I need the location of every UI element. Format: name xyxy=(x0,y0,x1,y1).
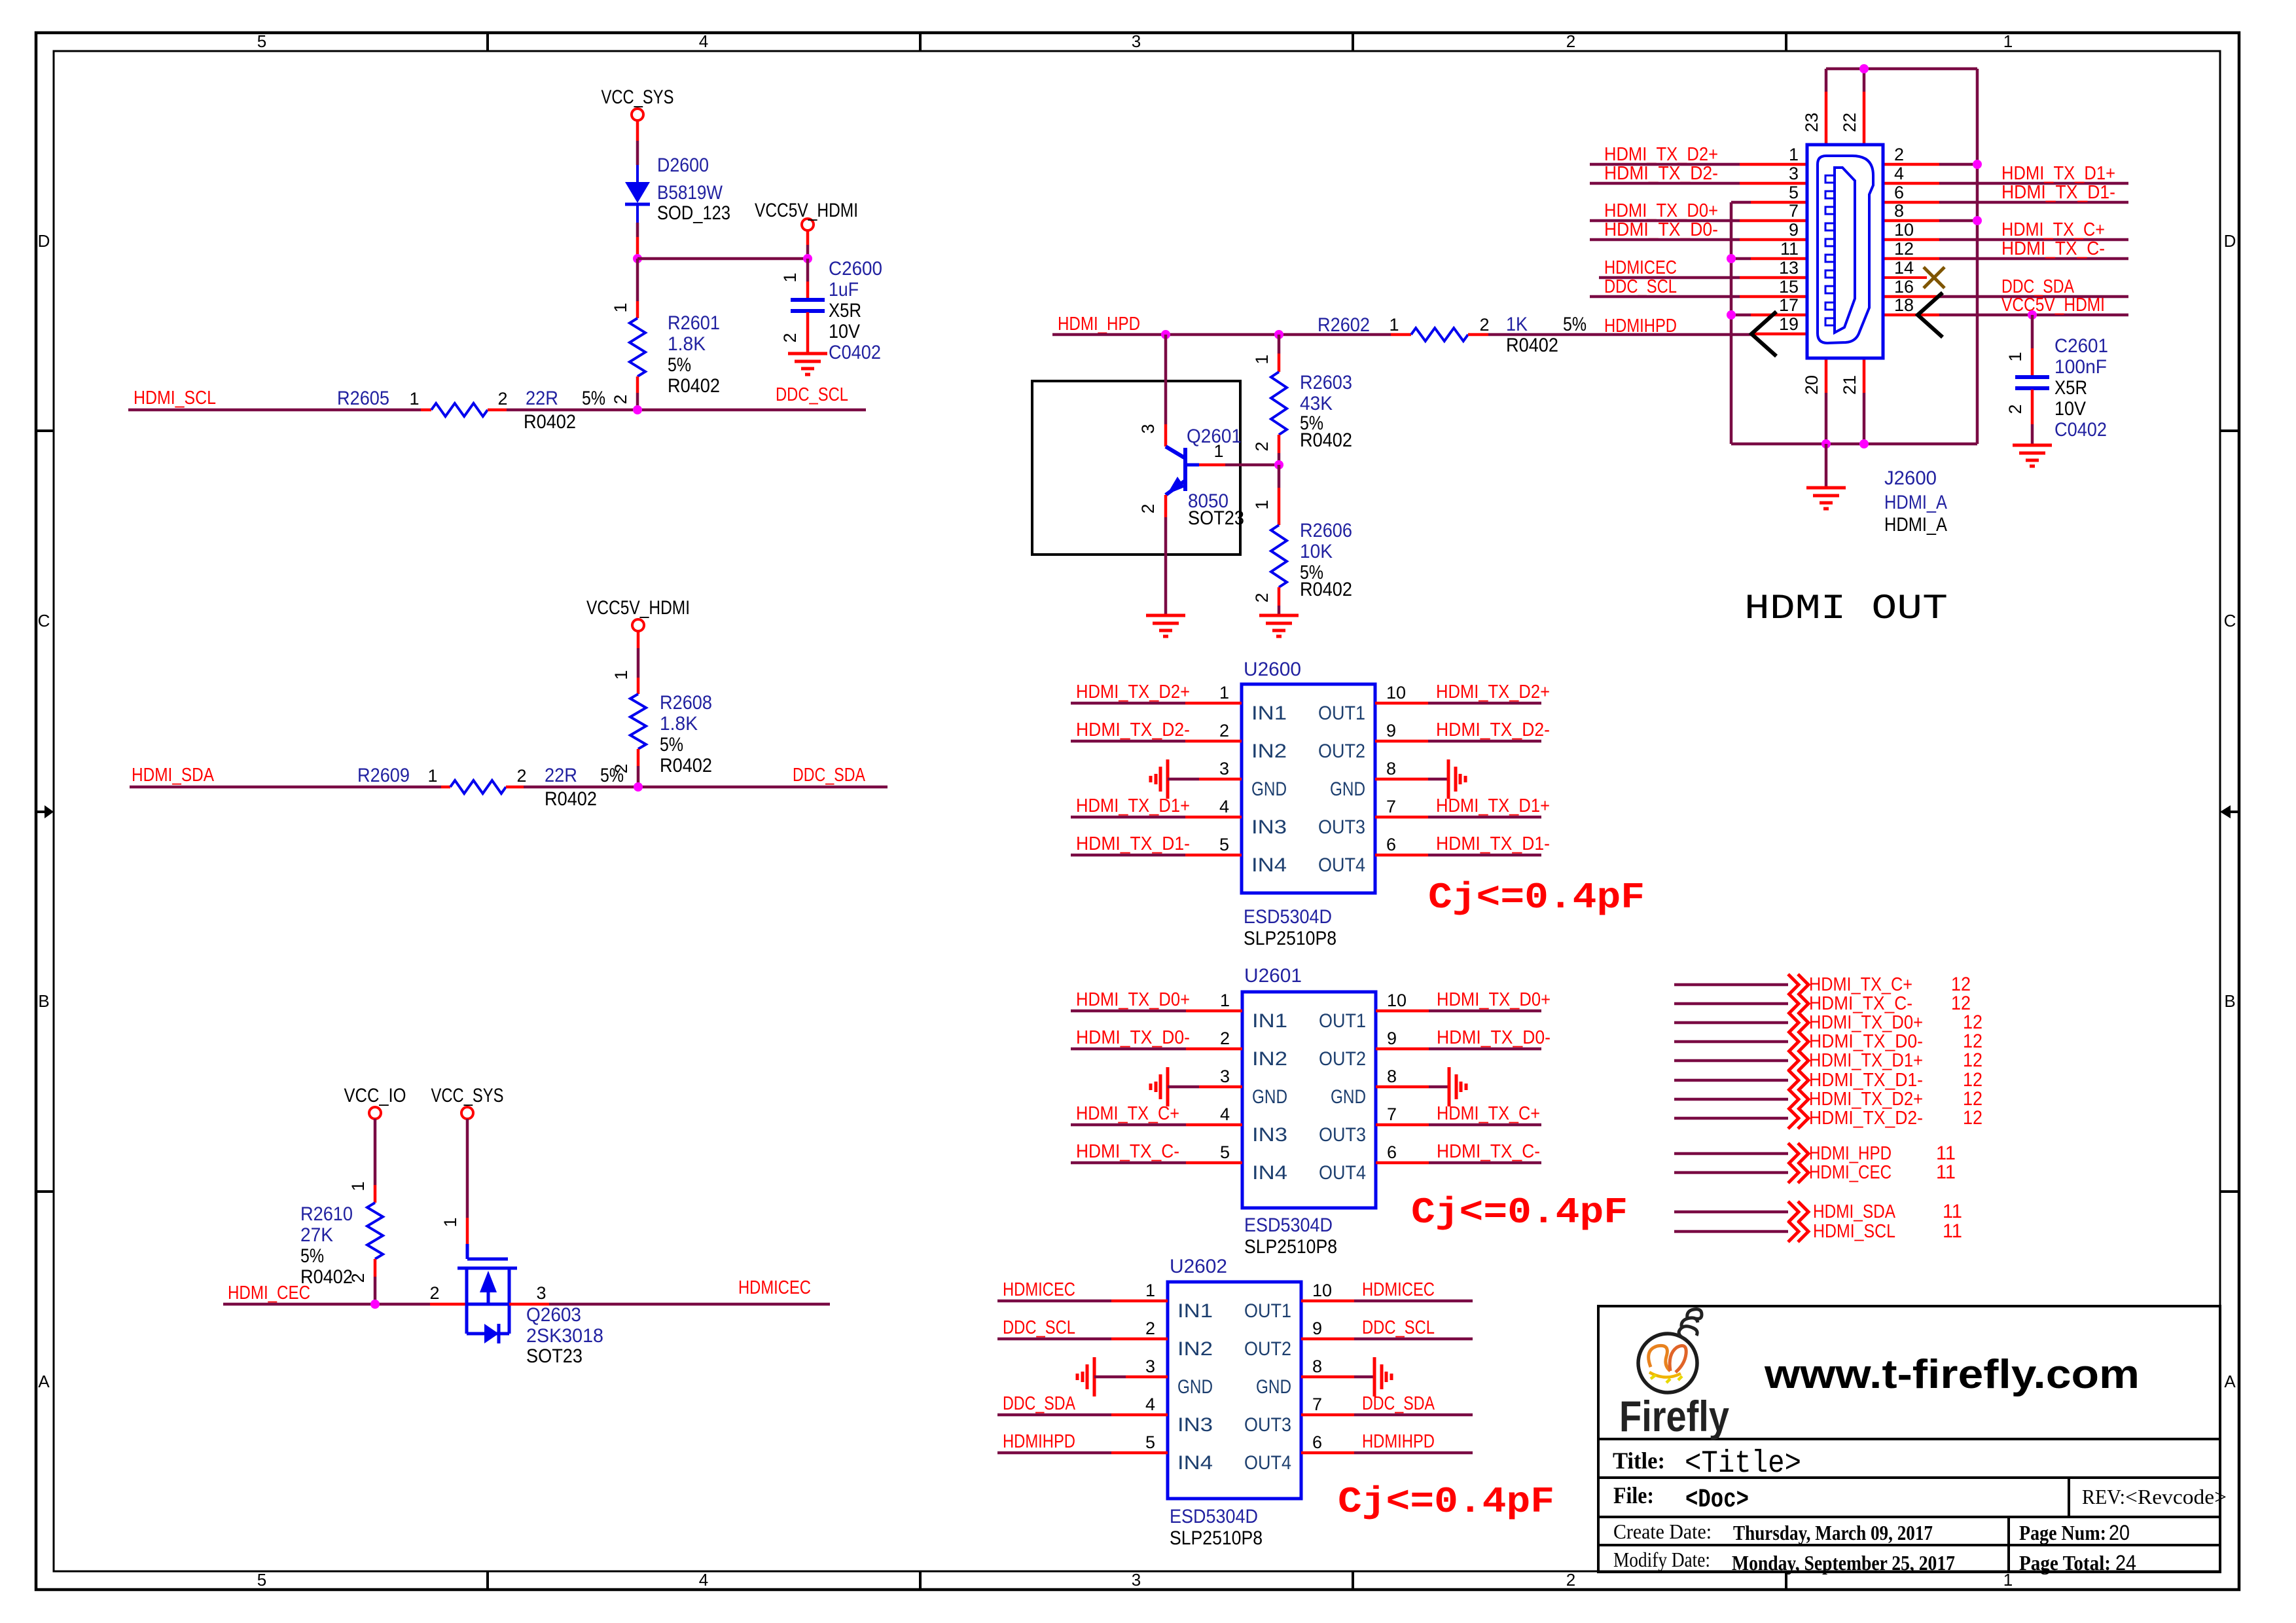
svg-text:VCC_SYS: VCC_SYS xyxy=(601,86,674,108)
svg-text:R2609: R2609 xyxy=(357,765,410,786)
svg-text:C2601: C2601 xyxy=(2054,335,2108,357)
wire to J2600 pin 1 xyxy=(1590,163,1740,166)
svg-text:VCC5V_HDMI: VCC5V_HDMI xyxy=(755,200,858,221)
off-page connector HDMI_TX_D0- (page 12) xyxy=(1674,1030,1982,1052)
svg-text:5%: 5% xyxy=(660,734,683,756)
svg-text:HDMI_TX_D2+: HDMI_TX_D2+ xyxy=(1436,682,1550,702)
svg-text:1.8K: 1.8K xyxy=(668,333,706,355)
wire VCC_SYS to diode D2600 xyxy=(636,120,639,141)
svg-text:2: 2 xyxy=(1145,1319,1155,1338)
svg-text:OUT2: OUT2 xyxy=(1319,1048,1366,1070)
wire to J2600 pin 3 xyxy=(1590,182,1740,185)
svg-text:OUT4: OUT4 xyxy=(1318,854,1365,876)
junction at (2790,678) xyxy=(1821,439,1831,448)
no-ERC chevron on pin 19 xyxy=(1751,312,1776,356)
svg-text:D: D xyxy=(2224,231,2236,251)
svg-text:IN3: IN3 xyxy=(1252,1124,1287,1146)
svg-text:VCC5V_HDMI: VCC5V_HDMI xyxy=(586,597,690,619)
svg-text:HDMI_TX_D1+: HDMI_TX_D1+ xyxy=(1436,795,1550,816)
wire to J2600 pin 11 xyxy=(1731,257,1751,261)
svg-text:OUT4: OUT4 xyxy=(1319,1162,1366,1184)
svg-text:HDMI OUT: HDMI OUT xyxy=(1744,589,1948,629)
svg-text:HDMI_TX_D1+: HDMI_TX_D1+ xyxy=(1076,795,1190,816)
svg-text:SOT23: SOT23 xyxy=(526,1345,583,1367)
wire to J2600 pin 9 xyxy=(1590,238,1740,242)
svg-text:DDC_SDA: DDC_SDA xyxy=(793,765,866,786)
wire HDMI_SCL xyxy=(128,409,421,412)
wire U2600 pin 6 xyxy=(1375,854,1428,857)
svg-text:HDMI_TX_D0-: HDMI_TX_D0- xyxy=(1604,219,1718,240)
svg-text:<Doc>: <Doc> xyxy=(1685,1486,1749,1515)
svg-text:HDMI_TX_C+: HDMI_TX_C+ xyxy=(2001,219,2105,240)
svg-text:2: 2 xyxy=(1566,31,1575,51)
ground (power symbol) at U2600 pin 3 xyxy=(1151,759,1168,799)
wire U2602 pin 5 xyxy=(997,1451,1111,1455)
svg-text:HDMI_TX_D2-: HDMI_TX_D2- xyxy=(1076,720,1190,740)
wire U2600 pin 8 xyxy=(1375,778,1428,781)
svg-text:10V: 10V xyxy=(2054,398,2086,420)
svg-text:3: 3 xyxy=(1219,759,1229,778)
capacitor C2600 1uF xyxy=(780,258,882,363)
svg-text:X5R: X5R xyxy=(829,300,861,321)
wire U2600 pin 3 xyxy=(1168,778,1199,781)
svg-text:14: 14 xyxy=(1894,258,1914,278)
svg-text:HDMI_A: HDMI_A xyxy=(1884,514,1947,536)
wire U2600 pin 4 xyxy=(1071,816,1185,819)
svg-text:1: 1 xyxy=(1789,145,1799,164)
svg-text:HDMI_TX_D2+: HDMI_TX_D2+ xyxy=(1604,144,1718,165)
svg-text:HDMI_TX_C+: HDMI_TX_C+ xyxy=(1076,1103,1179,1124)
svg-text:IN2: IN2 xyxy=(1252,1048,1287,1070)
transistor Q2601 8050 SOT23 xyxy=(1138,335,1279,615)
svg-text:2: 2 xyxy=(1566,1570,1575,1590)
svg-text:6: 6 xyxy=(1387,1142,1397,1162)
junction at (1781,511) xyxy=(1161,330,1170,339)
svg-text:21: 21 xyxy=(1840,375,1859,395)
svg-text:23: 23 xyxy=(1802,113,1821,132)
svg-text:1: 1 xyxy=(348,1181,368,1191)
svg-text:OUT1: OUT1 xyxy=(1318,702,1365,724)
wire left shield vertical (pins 5,11,17) xyxy=(1730,202,1733,444)
wire pin 22 xyxy=(1863,69,1866,92)
svg-text:OUT2: OUT2 xyxy=(1244,1338,1291,1360)
svg-text:Monday, September 25, 2017: Monday, September 25, 2017 xyxy=(1732,1551,1955,1575)
svg-text:1: 1 xyxy=(1252,500,1272,509)
wire VCC5V_HDMI to node xyxy=(806,230,810,245)
junction at (2645,395) xyxy=(1727,254,1736,263)
svg-text:SOD_123: SOD_123 xyxy=(657,202,730,224)
wire pin 14 (no connect) xyxy=(1883,276,1927,279)
svg-text:10: 10 xyxy=(1312,1281,1332,1300)
svg-text:HDMI_SCL: HDMI_SCL xyxy=(1813,1221,1895,1242)
wire U2601 pin 2 xyxy=(1071,1048,1186,1051)
connector J2600 HDMI_A body xyxy=(1807,145,1947,536)
svg-text:11: 11 xyxy=(1936,1161,1956,1183)
svg-text:DDC_SDA: DDC_SDA xyxy=(1003,1393,1076,1414)
wire U2601 pin 8 xyxy=(1376,1085,1429,1089)
wire U2600 pin 2 xyxy=(1071,740,1185,743)
wire node to C2600 branch xyxy=(637,257,808,261)
svg-text:4: 4 xyxy=(699,1570,708,1590)
junction at (1234,395) xyxy=(803,254,812,263)
resistor R2601 1.8K xyxy=(611,259,720,410)
svg-text:1: 1 xyxy=(2003,31,2013,51)
off-page connector HDMI_TX_D0+ (page 12) xyxy=(1674,1012,1982,1033)
svg-text:<Title>: <Title> xyxy=(1685,1446,1801,1482)
svg-text:U2600: U2600 xyxy=(1244,659,1301,680)
svg-text:Page Total:: Page Total: xyxy=(2019,1551,2111,1575)
ground (power symbol) at U2600 pin 8 xyxy=(1448,759,1465,799)
ESD protection IC U2602 ESD5304D xyxy=(997,1256,1473,1549)
svg-text:IN2: IN2 xyxy=(1251,740,1287,762)
capacitor C2601 100nF xyxy=(2005,315,2108,445)
svg-text:GND: GND xyxy=(1331,1086,1366,1108)
svg-text:1: 1 xyxy=(611,302,630,312)
ground below J2600 xyxy=(1806,488,1846,509)
svg-text:B: B xyxy=(2224,991,2235,1011)
svg-text:17: 17 xyxy=(1779,295,1799,315)
svg-text:1: 1 xyxy=(1145,1281,1155,1300)
svg-text:HDMI_TX_D1-: HDMI_TX_D1- xyxy=(2001,182,2115,203)
svg-text:HDMI_TX_D0+: HDMI_TX_D0+ xyxy=(1437,989,1551,1010)
svg-text:7: 7 xyxy=(1312,1395,1322,1414)
svg-text:1.8K: 1.8K xyxy=(660,713,698,735)
svg-text:HDMI_TX_C+: HDMI_TX_C+ xyxy=(1809,974,1912,995)
wire U2601 pin 6 xyxy=(1376,1161,1429,1165)
wire U2602 pin 3 xyxy=(1094,1376,1126,1379)
svg-text:1: 1 xyxy=(2005,352,2025,361)
junction at (1954,710) xyxy=(1274,460,1283,469)
wire from J2600 pin 4 xyxy=(1883,182,1939,185)
svg-text:10V: 10V xyxy=(829,321,860,342)
svg-text:HDMI_TX_D1+: HDMI_TX_D1+ xyxy=(2001,163,2115,184)
svg-text:HDMI_TX_D2+: HDMI_TX_D2+ xyxy=(1076,682,1190,702)
svg-text:HDMI_TX_C+: HDMI_TX_C+ xyxy=(1437,1103,1540,1124)
svg-text:8: 8 xyxy=(1387,1067,1397,1086)
svg-text:HDMI_SDA: HDMI_SDA xyxy=(1813,1201,1896,1222)
wire R2602 to HDMIHPD pin19 xyxy=(1488,333,1751,337)
svg-text:C2600: C2600 xyxy=(829,258,882,280)
svg-text:11: 11 xyxy=(1943,1220,1962,1242)
svg-text:B5819W: B5819W xyxy=(657,182,723,204)
svg-text:OUT4: OUT4 xyxy=(1244,1452,1291,1474)
svg-text:R0402: R0402 xyxy=(524,411,576,433)
svg-text:22R: 22R xyxy=(526,388,558,409)
wire U2602 pin 10 xyxy=(1301,1300,1354,1303)
svg-text:HDMI_TX_D2-: HDMI_TX_D2- xyxy=(1436,720,1550,740)
svg-text:C0402: C0402 xyxy=(829,342,881,363)
off-page connector HDMI_TX_C+ (page 12) xyxy=(1674,974,1971,995)
wire pin 21 xyxy=(1863,358,1866,393)
wire U2602 pin 1 xyxy=(997,1300,1111,1303)
off-page connector HDMI_TX_C- (page 12) xyxy=(1674,993,1971,1014)
svg-text:IN3: IN3 xyxy=(1177,1414,1213,1436)
svg-text:Cj<=0.4pF: Cj<=0.4pF xyxy=(1411,1192,1628,1233)
ESD protection IC U2601 ESD5304D xyxy=(1071,965,1551,1258)
svg-text:3: 3 xyxy=(536,1283,546,1303)
wire U2601 pin 4 xyxy=(1071,1123,1186,1127)
power symbol VCC5V_HDMI xyxy=(586,597,690,631)
svg-text:2: 2 xyxy=(429,1283,439,1303)
svg-text:HDMICEC: HDMICEC xyxy=(1362,1279,1435,1300)
junction at (3021,337) xyxy=(1973,216,1982,225)
wire from J2600 pin 6 xyxy=(1883,201,1939,204)
ground (power symbol) at U2602 pin 3 xyxy=(1077,1357,1094,1396)
svg-text:VCC_SYS: VCC_SYS xyxy=(431,1085,504,1106)
wire U2602 pin 6 xyxy=(1301,1451,1354,1455)
svg-text:Firefly: Firefly xyxy=(1619,1392,1729,1440)
svg-text:HDMI_A: HDMI_A xyxy=(1884,492,1947,513)
svg-text:SOT23: SOT23 xyxy=(1188,507,1244,529)
junction at (3021,251) xyxy=(1973,160,1982,169)
svg-text:HDMI_HPD: HDMI_HPD xyxy=(1809,1143,1892,1164)
svg-text:U2601: U2601 xyxy=(1244,965,1302,987)
svg-text:ESD5304D: ESD5304D xyxy=(1244,906,1332,928)
Q2601 base wire xyxy=(1187,464,1199,467)
svg-text:X5R: X5R xyxy=(2054,377,2087,399)
svg-text:1: 1 xyxy=(1389,315,1399,335)
svg-text:2: 2 xyxy=(1220,1029,1230,1048)
svg-text:R2601: R2601 xyxy=(668,312,720,334)
svg-text:43K: 43K xyxy=(1300,393,1333,414)
svg-text:HDMI_TX_D0-: HDMI_TX_D0- xyxy=(1809,1031,1923,1052)
svg-text:6: 6 xyxy=(1312,1432,1322,1452)
svg-text:R2606: R2606 xyxy=(1300,520,1352,541)
Q2601 collector wire xyxy=(1164,335,1168,424)
resistor R2608 1.8K xyxy=(611,631,712,787)
svg-text:IN4: IN4 xyxy=(1177,1452,1213,1474)
svg-text:15: 15 xyxy=(1779,277,1799,297)
firefly logo xyxy=(1638,1309,1702,1393)
svg-text:OUT1: OUT1 xyxy=(1319,1010,1366,1032)
wire U2601 pin 1 xyxy=(1071,1010,1186,1013)
wire from J2600 pin 18 xyxy=(1883,314,1939,317)
svg-text:2: 2 xyxy=(780,333,800,342)
svg-text:HDMICEC: HDMICEC xyxy=(738,1277,811,1298)
svg-text:2: 2 xyxy=(516,766,526,786)
svg-text:1: 1 xyxy=(440,1217,460,1227)
svg-text:13: 13 xyxy=(1779,258,1799,278)
svg-text:22R: 22R xyxy=(545,765,577,786)
svg-text:HDMI_TX_D1-: HDMI_TX_D1- xyxy=(1076,833,1190,854)
svg-text:U2602: U2602 xyxy=(1170,1256,1227,1277)
svg-text:1: 1 xyxy=(780,272,800,282)
wire R2609 to DDC_SDA xyxy=(524,786,888,789)
svg-text:HDMI_TX_C-: HDMI_TX_C- xyxy=(1437,1141,1540,1162)
svg-text:1: 1 xyxy=(1252,354,1272,364)
svg-text:2: 2 xyxy=(1479,315,1489,335)
svg-text:5%: 5% xyxy=(300,1245,324,1267)
svg-text:5: 5 xyxy=(1220,1142,1230,1162)
svg-text:18: 18 xyxy=(1894,295,1914,315)
svg-text:12: 12 xyxy=(1963,1049,1982,1071)
svg-text:7: 7 xyxy=(1387,1104,1397,1124)
wire U2602 pin 4 xyxy=(997,1413,1111,1417)
svg-text:20: 20 xyxy=(2109,1521,2130,1544)
svg-text:9: 9 xyxy=(1387,1029,1397,1048)
svg-text:1K: 1K xyxy=(1506,314,1528,335)
svg-text:OUT2: OUT2 xyxy=(1318,740,1365,762)
svg-text:HDMI_TX_D0+: HDMI_TX_D0+ xyxy=(1604,200,1718,221)
off-page connector HDMI_TX_D2- (page 12) xyxy=(1674,1107,1982,1129)
svg-text:6: 6 xyxy=(1386,835,1396,854)
svg-text:A: A xyxy=(2224,1372,2236,1391)
svg-text:SLP2510P8: SLP2510P8 xyxy=(1244,1236,1337,1258)
power symbol VCC5V_HDMI xyxy=(755,200,858,230)
svg-text:HDMI_TX_D0-: HDMI_TX_D0- xyxy=(1076,1027,1190,1048)
wire rail to ground xyxy=(1825,444,1828,487)
wire to J2600 pin 13 xyxy=(1599,276,1740,280)
wire R2605 to DDC_SCL xyxy=(507,409,866,412)
svg-text:IN4: IN4 xyxy=(1251,854,1287,876)
svg-text:Page Num:: Page Num: xyxy=(2019,1521,2106,1544)
svg-text:OUT3: OUT3 xyxy=(1318,816,1365,838)
resistor R2602 1K xyxy=(1318,314,1587,356)
junction at (2848,678) xyxy=(1859,439,1869,448)
svg-text:Cj<=0.4pF: Cj<=0.4pF xyxy=(1428,877,1645,919)
svg-text:OUT3: OUT3 xyxy=(1319,1124,1366,1146)
svg-text:4: 4 xyxy=(1145,1395,1155,1414)
svg-text:R0402: R0402 xyxy=(660,755,712,776)
power symbol VCC_SYS xyxy=(431,1085,504,1119)
svg-text:DDC_SCL: DDC_SCL xyxy=(776,384,848,405)
wire from J2600 pin 2 xyxy=(1883,163,1939,166)
svg-text:3: 3 xyxy=(1132,31,1141,51)
svg-text:10: 10 xyxy=(1387,991,1407,1010)
diode D2600 B5819W SOD_123 xyxy=(625,155,730,224)
svg-text:HDMI_TX_C-: HDMI_TX_C- xyxy=(1076,1141,1179,1162)
svg-text:5: 5 xyxy=(1145,1432,1155,1452)
svg-text:2: 2 xyxy=(1219,721,1229,740)
svg-text:D2600: D2600 xyxy=(657,155,709,176)
ground (power symbol) at U2601 pin 3 xyxy=(1151,1067,1168,1106)
svg-text:16: 16 xyxy=(1894,277,1914,297)
svg-text:11: 11 xyxy=(1780,239,1799,259)
svg-text:1: 1 xyxy=(611,670,631,680)
svg-text:R0402: R0402 xyxy=(1506,335,1558,356)
svg-text:Modify Date:: Modify Date: xyxy=(1613,1548,1710,1571)
svg-text:GND: GND xyxy=(1256,1376,1291,1398)
Q2601 emitter wire xyxy=(1164,495,1168,517)
title block xyxy=(1598,1306,2220,1572)
svg-text:9: 9 xyxy=(1386,721,1396,740)
svg-text:2: 2 xyxy=(611,394,630,404)
svg-text:GND: GND xyxy=(1251,778,1287,800)
off-page connector HDMI_TX_D1- (page 12) xyxy=(1674,1069,1982,1091)
wire U2601 pin 10 xyxy=(1376,1010,1429,1013)
svg-text:3: 3 xyxy=(1220,1067,1230,1086)
svg-text:R0402: R0402 xyxy=(1300,579,1352,600)
svg-text:HDMI_TX_D0-: HDMI_TX_D0- xyxy=(1437,1027,1551,1048)
wire U2600 pin 10 xyxy=(1375,702,1428,705)
junction at (3105,481) xyxy=(2028,310,2037,319)
svg-text:27K: 27K xyxy=(300,1224,333,1246)
wire HDMI_HPD xyxy=(1052,333,1391,337)
svg-text:HDMIHPD: HDMIHPD xyxy=(1003,1431,1075,1452)
svg-text:HDMI_HPD: HDMI_HPD xyxy=(1058,314,1140,335)
svg-text:4: 4 xyxy=(1220,1104,1230,1124)
svg-text:HDMI_TX_D2+: HDMI_TX_D2+ xyxy=(1809,1089,1923,1110)
svg-text:8: 8 xyxy=(1312,1357,1322,1376)
svg-text:10K: 10K xyxy=(1300,541,1333,562)
svg-text:1: 1 xyxy=(1220,991,1230,1010)
svg-text:2: 2 xyxy=(1894,145,1904,164)
svg-text:HDMI_TX_D2-: HDMI_TX_D2- xyxy=(1604,163,1718,184)
no-connect X on pin 14 xyxy=(1924,267,1945,288)
ground below C2601 xyxy=(2013,445,2052,466)
svg-text:R0402: R0402 xyxy=(545,788,597,810)
svg-text:1: 1 xyxy=(1219,683,1229,702)
svg-text:HDMI_SCL: HDMI_SCL xyxy=(134,388,216,409)
svg-text:10: 10 xyxy=(1894,220,1914,240)
resistor R2609 22R xyxy=(357,765,624,810)
svg-text:IN4: IN4 xyxy=(1252,1162,1287,1184)
junction at (2645,481) xyxy=(1727,310,1736,319)
wire bottom ground rail xyxy=(1731,443,1977,446)
junction at (2848,105) xyxy=(1859,64,1869,73)
wire from J2600 pin 16 xyxy=(1883,295,1939,299)
svg-text:ESD5304D: ESD5304D xyxy=(1244,1214,1333,1236)
svg-text:12: 12 xyxy=(1894,239,1914,259)
svg-text:R2605: R2605 xyxy=(337,388,389,409)
resistor R2603 43K xyxy=(1252,335,1352,465)
svg-text:DDC_SDA: DDC_SDA xyxy=(1362,1393,1435,1414)
svg-text:HDMI_TX_D2-: HDMI_TX_D2- xyxy=(1809,1108,1923,1129)
svg-text:3: 3 xyxy=(1145,1357,1155,1376)
svg-text:2: 2 xyxy=(1252,593,1272,602)
wire U2601 pin 3 xyxy=(1168,1085,1199,1089)
svg-text:HDMI_TX_C-: HDMI_TX_C- xyxy=(2001,238,2105,259)
off-page connector HDMI_SCL (page 11) xyxy=(1674,1220,1962,1242)
svg-text:7: 7 xyxy=(1789,201,1799,221)
svg-text:HDMI_TX_D1+: HDMI_TX_D1+ xyxy=(1809,1050,1923,1071)
svg-text:OUT1: OUT1 xyxy=(1244,1300,1291,1322)
svg-text:www.t-firefly.com: www.t-firefly.com xyxy=(1764,1352,2140,1397)
off-page connector HDMI_SDA (page 11) xyxy=(1674,1201,1962,1222)
svg-text:7: 7 xyxy=(1386,797,1396,816)
svg-text:2: 2 xyxy=(497,389,507,409)
wire Q2603 to HDMICEC xyxy=(549,1303,830,1306)
svg-text:5: 5 xyxy=(257,1570,266,1590)
wire U2602 pin 9 xyxy=(1301,1338,1354,1341)
svg-text:SLP2510P8: SLP2510P8 xyxy=(1170,1527,1263,1549)
wire U2600 pin 1 xyxy=(1071,702,1185,705)
wire from J2600 pin 10 xyxy=(1883,238,1939,242)
wire pin 23 xyxy=(1825,69,1828,92)
svg-text:File:: File: xyxy=(1613,1482,1654,1508)
svg-text:R0402: R0402 xyxy=(1300,429,1352,451)
svg-text:2: 2 xyxy=(2005,404,2025,414)
svg-text:IN1: IN1 xyxy=(1177,1300,1213,1322)
svg-text:HDMI_CEC: HDMI_CEC xyxy=(1809,1162,1892,1183)
svg-text:5: 5 xyxy=(1219,835,1229,854)
ground (power symbol) at U2601 pin 8 xyxy=(1449,1067,1466,1106)
wire U2601 pin 5 xyxy=(1071,1161,1186,1165)
svg-text:100nF: 100nF xyxy=(2054,356,2107,378)
svg-text:Thursday, March 09, 2017: Thursday, March 09, 2017 xyxy=(1733,1521,1933,1544)
svg-text:22: 22 xyxy=(1840,113,1859,132)
svg-text:DDC_SCL: DDC_SCL xyxy=(1003,1317,1075,1338)
svg-text:2SK3018: 2SK3018 xyxy=(526,1325,603,1347)
svg-text:IN3: IN3 xyxy=(1251,816,1287,838)
svg-text:D: D xyxy=(38,231,50,251)
ground below C2600 xyxy=(788,354,827,374)
power symbol VCC_IO xyxy=(344,1085,406,1119)
svg-text:GND: GND xyxy=(1330,778,1365,800)
svg-text:HDMIHPD: HDMIHPD xyxy=(1604,316,1677,337)
svg-text:J2600: J2600 xyxy=(1884,467,1937,489)
svg-text:C0402: C0402 xyxy=(2054,419,2107,441)
